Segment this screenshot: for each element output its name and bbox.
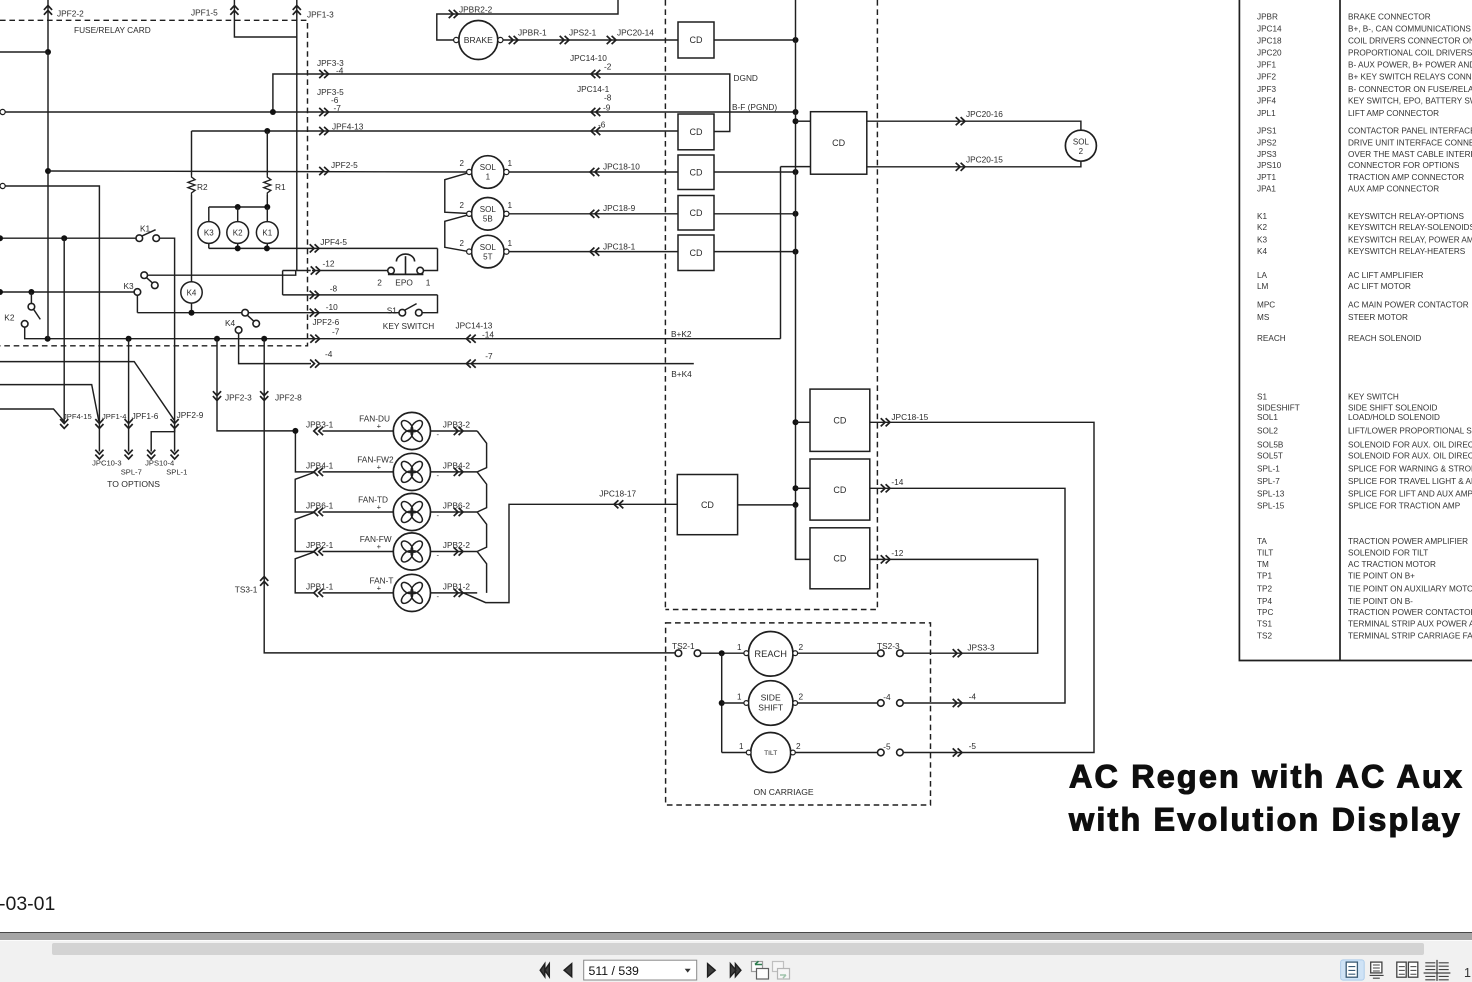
wire B+K2 vertical x=780.5 [780,167,782,339]
wire REACH out to TS2-3 [798,652,878,654]
terminal SOL1 pin1 [504,169,509,174]
solenoid SOL5T [472,235,505,268]
connector pin JPC20-14 arrow [607,36,616,44]
node dot fan feed at (295.4,430.9) [292,428,298,434]
layout icon facing-continuous [1425,963,1448,980]
node dot at (721.7,703) [719,700,725,706]
connector pin JPF3-5/-6/-7 arrow [319,108,328,116]
coil driver CD9 [810,528,870,589]
fan FAN-FW2 [393,453,430,490]
connector SPL-7 arrows down [125,450,133,459]
node dot at (237.7,248.4) [235,245,241,251]
connector pin JPB3-2 arrow [454,427,463,435]
connector pin JPC14-10/-2 arrow [591,70,600,78]
terminal TILT pin1 [746,750,751,755]
layout icon single-page (active) [1341,960,1365,980]
wire CD1 out to bus [714,39,796,41]
switch contact K3 [141,272,148,279]
wire bus to CD4 upper [796,120,811,122]
wire K1 contact out elbow [160,238,175,420]
pushbutton EPO [388,267,395,274]
wire coil-driver return bus x=795.5 [795,0,797,559]
side shift solenoid [748,681,793,726]
wire FAN-FW2 output [431,471,478,473]
wire node vertical x=282.6 (-12 to -8) [282,271,284,295]
node dot at (795.5,172) [793,169,799,175]
wire FAN-T output [431,592,478,594]
wire FAN-TD input [323,511,394,513]
wire TILT out [795,752,877,754]
wire K1 coil bottom vertical [266,243,268,248]
solenoid SOL5B [472,198,505,231]
wire JPF2-3 vertical to fan feed [217,339,295,431]
wire JPF1-3 vertical x=296.8 down to relay node [296,0,298,271]
wire K2 coil bottom vertical [237,243,239,248]
wire FAN-DU output [431,430,478,432]
node dot at (48,171) [45,168,51,174]
fan FAN-TD [393,493,430,530]
brake coil BRAKE [459,21,498,60]
contactor panel dashed border right x=877.4 and bottom [665,0,877,610]
wire R1 bottom vertical [266,195,268,207]
terminal circle left edge y=186 [0,183,5,188]
node dot at (272.9,112) [270,109,276,115]
connector JPF1-3 (up arrows) [293,6,301,15]
terminal SOL5B pin2 [467,211,472,216]
wire FAN-TD output [431,511,478,513]
node dot at (795.5,251.6) [793,249,799,255]
wire K2 coil top vertical [237,207,239,222]
switch S1 key switch [399,309,406,316]
wire R2 bottom to K4 coil [191,195,193,282]
node dot at (264.2,338.7) [261,336,267,342]
contactor panel dashed border left x=665.4 [664,0,666,610]
connector pin JPC14-6 arrow [591,127,600,135]
wire FAN-T input [323,592,394,594]
connector pin JPB3-1 arrow [314,427,323,435]
wire B+K2 to CD4 [781,166,811,168]
terminal SOL5T pin2 [467,249,472,254]
wire option line y=361.6 diagonal to JPF2-9 [0,362,175,421]
connector pin JPB2-2 arrow [454,547,463,555]
wire K2 moving stub [30,292,32,303]
toolbar next-view button (disabled) [773,962,784,972]
connector pin JPC18-17 arrow [614,500,623,508]
terminal SOL5T pin1 [504,249,509,254]
node dot at (795.5,40) [793,37,799,43]
wire fan return to JPC18-17 [464,504,678,602]
connector pin JPC18-10 arrow [590,168,599,176]
edge half-dot at (0,292) [0,289,3,295]
node dot at (795.5,422.3) [793,419,799,425]
wire FAN-FW input [323,551,394,553]
node dot at (795.5,112) [793,109,799,115]
relay coil K2 [227,222,249,244]
wire K4 fixed drop to -4 line [239,333,311,363]
wire K3 coil bottom vertical [208,243,210,248]
wire R1 top vertical [266,131,268,175]
wire SOL pin2 chain zigzag [445,173,467,251]
connector JPF2-9 arrows down [171,419,179,428]
connector pin JPC18-9 arrow [590,210,599,218]
svg-text:1: 1 [1464,966,1471,980]
wire -10 line y=312.7 [137,312,399,314]
wire K3 fixed drop to -10 line [136,295,138,312]
wire FAN-FW output [431,551,478,553]
connector pin -5 arrow (JPS3) [953,748,962,756]
connector pin JPF3-3/-4 arrow [319,70,328,78]
svg-text:511 / 539: 511 / 539 [589,964,640,978]
wire coil bottom bus y=248.4 to JPF4-5 [209,247,438,249]
terminal SOL1 pin2 [467,169,472,174]
relay coil K4 [181,282,202,303]
connector pin -10 arrow [310,309,319,317]
wire JPC18-15 to TILT loop [870,422,1094,752]
wire FAN-DU input [323,430,394,432]
wire option line y=409 diagonal to JPF4-15 [0,409,64,421]
wire JPBR2-2 elbow [437,0,618,40]
coil driver CD4 [811,112,867,175]
connector JPF1-4 arrows down [95,419,103,428]
connector pin -4 arrow (JPS3) [953,699,962,707]
terminal circles -5 row [878,749,885,756]
wire K3 coil top vertical [208,207,210,222]
node dot at (217,338.7) [214,336,220,342]
terminal circle left edge y=112 [0,109,5,114]
wire S1 right elbow from -8 [422,295,437,313]
node dot at (31.4,292) [28,289,34,295]
edge half-dot at (0,238.2) [0,235,3,241]
terminal circles -4 row [878,700,885,707]
wire -12 to REACH loop [870,559,1038,653]
connector pin JPBR-1 arrow [509,36,518,44]
terminal REACH pin1 [744,651,749,656]
solenoid SOL1 [472,156,505,189]
wire -8 run y=294.9 [283,294,438,296]
connector pin JPS2-1 arrow [560,36,569,44]
wire EPO right elbow [423,248,437,270]
wire K1 coil top vertical [266,207,268,222]
connector pin JPC20-15 arrow [956,163,965,171]
connector JPF1-6 arrows down [125,419,133,428]
wire CD5 out to bus [714,213,796,215]
wire bus elbow to CD9 [796,505,811,560]
wire bus to CD8 [796,487,811,489]
layout icon facing [1397,962,1406,977]
wire stub left at y=52 [0,51,48,53]
wire K1 aux vertical x=64.2 to JPF4-15 [63,238,65,423]
wire DGND net: branch vertical x=272.9 and run y=74 with elbow to CD2 right [273,74,730,132]
connector JPF4-15 arrows down [60,419,68,428]
node dot at (795.5,504.9) [793,502,799,508]
terminal SOL5B pin1 [504,211,509,216]
wire JPF1-6 vertical [128,339,130,452]
node dot at (721.7,653.2) [719,650,725,656]
connector pin JPC14-7 arrow [466,360,475,368]
wire -14 to SIDE SHIFT loop [870,488,1065,703]
wire -4 line to B+K4 [319,363,693,365]
legend table entries [1257,12,1472,640]
terminal SIDESHIFT pin2 [793,701,798,706]
terminal strip TS2-1 circles [675,650,682,657]
connector pin JPS3-3 arrow [953,649,962,657]
wire JPF2-2 vertical x=48 [47,0,49,52]
wire JPF4-13 net y=131 [192,130,679,132]
connector pin JPC20-16 arrow [956,117,965,125]
wire EPO left to -12 pin [312,270,387,272]
wire TS2-1 to solenoid feed node [701,652,749,654]
node dot at (795.5,488.3) [793,485,799,491]
terminal SIDESHIFT pin1 [744,701,749,706]
connector pin JPC18-12 arrow [881,555,890,563]
node dot at (237.7,207) [235,204,241,210]
connector JPF1-5 (up arrows) [230,6,238,15]
toolbar first-page button [540,964,549,977]
wire JPC20-16 to SOL2 top [867,121,1081,130]
wire solenoid feed vertical x=721.7 [721,653,723,752]
coil driver CD10 [677,475,737,535]
wire R2 top vertical [191,131,193,175]
toolbar last-page button [730,964,741,977]
connector pin JPB1-2 arrow [454,589,463,597]
connector pin JPC18-15 arrow [881,418,890,426]
wire K1 contact feed y=238.2 [0,237,136,239]
connector JPF2-2 (up arrows + vertical) [44,6,52,15]
fan FAN-DU [393,412,430,449]
connector SPL-1 arrows down [171,450,179,459]
wire JPF2-2 vertical lower part [47,52,49,339]
terminal strip TS2-3 circles [878,650,885,657]
terminal REACH pin2 [793,651,798,656]
toolbar previous-view button [752,962,763,972]
connector pin JPB6-2 arrow [454,508,463,516]
wire tilt feed elbow [722,752,751,754]
relay coil K3 [198,222,220,244]
switch contact K2 [28,303,35,310]
node dot K4 coil return at (191.5,312.7) [189,310,195,316]
terminal BRAKE left [454,37,459,42]
connector TS3-1 arrows up [260,577,268,586]
wire K2 fixed drop and key bus start [25,327,781,339]
wire CD10 out to bus [738,504,796,506]
layout icon continuous [1371,962,1382,973]
wire SOL5T pin1 to CD6 [509,251,678,253]
switch contact K4 blade+free [253,320,260,327]
wire JPF2-8 / TS3-1 vertical [264,339,678,653]
on-carriage dashed enclosure [666,623,931,805]
wire CD3 out to bus [714,171,796,173]
connector pin JPB4-2 arrow [454,468,463,476]
connector pin JPC18-1 arrow [590,248,599,256]
coil driver CD8 [810,459,870,520]
connector pin -8 arrow [310,291,319,299]
wire JPC20-15 to SOL2 bottom [867,161,1081,167]
node dot at (64.2,238.2) [61,235,67,241]
wire option line y=384.6 diagonal to JPF1-4 [0,385,99,421]
reach solenoid REACH [748,632,793,677]
relay coil K1 [256,222,278,244]
contact K4 fixed terminal [235,327,242,334]
coil driver CD3 [678,155,714,190]
wire fan feed rail (left chain) [295,431,314,593]
connector pin -4 arrow [310,360,319,368]
connector pin JPC18-14 arrow [881,484,890,492]
wire SOL5B pin1 to CD5 [509,213,678,215]
node dot at (795.5,213.8) [793,211,799,217]
coil driver CD2 [678,114,714,150]
node dot at (267.3,131) [264,128,270,134]
wire B-F (PGND) net y=112 [5,111,795,113]
wire K3 feed y=292 [0,291,134,293]
switch contact K1 [136,235,143,242]
wire SIDESHIFT out [798,702,878,704]
wire SOL1 pin1 to CD3 [509,171,678,173]
connector pin JPB6-1 arrow [314,508,323,516]
terminal BRAKE right [498,37,503,42]
connector pin JPC14-13/-14 arrow [466,335,475,343]
connector pin JPC14-1/-8/-9 arrow [591,108,600,116]
coil driver CD1 (brake) [678,22,714,58]
resistor R1 [264,175,271,195]
coil driver CD5 [678,196,714,231]
connector pin JPF4-5 arrow [310,244,319,252]
wire BRAKE to CD1 [503,39,678,41]
connector pin JPB4-1 arrow [314,468,323,476]
wire JPS10-4 jog [151,428,174,451]
resistor R2 [188,175,195,195]
connector JPC10-3 arrows down [95,450,103,459]
node dot B+ at (48,52) [45,49,51,55]
wire -12 run from node [283,270,311,272]
solenoid SOL2 [1065,130,1096,161]
toolbar prev-page button [564,964,572,977]
wire side shift feed [722,702,749,704]
connector pin JPBR2-2 arrow [449,10,458,18]
legend box border [1239,0,1472,661]
tilt solenoid TILT [751,733,791,773]
wire bus to CD7 [796,421,811,423]
coil driver CD7 [810,389,870,451]
connector pin -12 arrow [311,266,320,274]
fuse/relay card dashed enclosure [0,20,308,346]
wire K1-out vertical to JPF2-9 continue SPL-1 [174,421,176,452]
connector pin JPB1-1 arrow [314,589,323,597]
node dot at (266.9,248.4) [264,245,270,251]
wire JPF1-5 elbow to JPF1-3 vertical [234,0,296,37]
contact K3 fixed terminal [134,289,141,296]
coil driver CD6 [678,235,714,271]
node dot at (795.5,121.2) [793,118,799,124]
connector pin JPF2-5 arrow [319,167,328,175]
node dot at (128.6,338.7) [126,336,132,342]
connector pin JPF2-6/-7 arrow [310,335,319,343]
wire CD6 out to bus [714,251,796,253]
connector pin JPF4-13 arrow [319,127,328,135]
toolbar next-page button [708,964,716,977]
wire y=186 elbow down x=99.4 [5,186,99,452]
toolbar page-number box [584,960,697,980]
terminal TILT pin2 [791,750,796,755]
fan FAN-FW [393,533,430,570]
node dot at (47.6,338.7) [45,336,51,342]
connector JPF2-3 arrows down [213,391,221,400]
wire FAN-FW2 input [323,471,394,473]
wire JPF2-5 net y=171 [48,171,467,172]
switch contact K4 inline [242,309,249,316]
connector pin JPB2-1 arrow [314,547,323,555]
wire K4 coil bottom vertical [191,303,193,313]
connector JPF2-8 arrows down [260,391,268,400]
fan FAN-T [393,574,430,611]
wire fan return rail (right chain) [477,431,486,593]
wire K3 contact line elbow into node [148,271,296,276]
connector JPS10-4 arrows down [147,450,155,459]
node dot at (267.3,207) [264,204,270,210]
wire coil top bus y=207 [209,206,267,208]
